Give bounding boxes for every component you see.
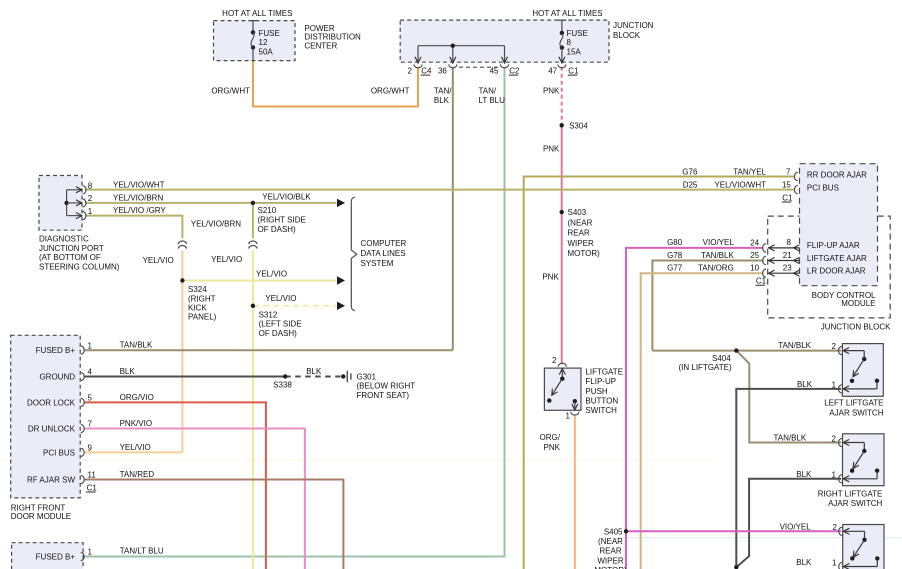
svg-text:ORG/WHT: ORG/WHT — [211, 87, 250, 96]
svg-text:(IN LIFTGATE): (IN LIFTGATE) — [679, 363, 733, 372]
svg-text:REAR: REAR — [568, 229, 590, 238]
svg-text:BLK: BLK — [434, 96, 450, 105]
svg-text:FUSE: FUSE — [567, 29, 588, 38]
svg-text:LT BLU: LT BLU — [479, 96, 506, 105]
svg-text:TAN/: TAN/ — [434, 87, 452, 96]
svg-text:DOOR LOCK: DOOR LOCK — [27, 398, 76, 407]
svg-text:12: 12 — [259, 38, 268, 47]
svg-text:S405: S405 — [604, 527, 623, 536]
svg-text:FRONT SEAT): FRONT SEAT) — [357, 391, 410, 400]
svg-text:WIPER: WIPER — [568, 239, 594, 248]
svg-text:LEFT LIFTGATE: LEFT LIFTGATE — [824, 399, 883, 408]
svg-text:RIGHT LIFTGATE: RIGHT LIFTGATE — [818, 490, 883, 499]
svg-text:S312: S312 — [259, 310, 278, 319]
svg-text:2: 2 — [408, 67, 413, 76]
svg-text:7: 7 — [88, 420, 93, 429]
svg-text:HOT AT ALL TIMES: HOT AT ALL TIMES — [532, 9, 602, 18]
svg-text:YEL/VIO: YEL/VIO — [143, 256, 174, 265]
svg-text:11: 11 — [88, 471, 97, 480]
svg-text:(NEAR: (NEAR — [568, 218, 593, 227]
svg-text:PCI BUS: PCI BUS — [807, 184, 839, 193]
svg-text:AJAR SWITCH: AJAR SWITCH — [829, 408, 883, 417]
svg-text:FUSED B+: FUSED B+ — [36, 346, 76, 355]
svg-text:4: 4 — [88, 368, 93, 377]
svg-text:1: 1 — [566, 412, 571, 421]
svg-text:C2: C2 — [509, 67, 520, 76]
svg-text:REAR: REAR — [599, 547, 621, 556]
svg-text:YEL/VIO/BLK: YEL/VIO/BLK — [262, 193, 311, 202]
svg-text:BLK: BLK — [796, 558, 812, 567]
svg-text:50A: 50A — [259, 48, 274, 57]
svg-text:TAN/BLK: TAN/BLK — [701, 251, 734, 260]
svg-text:24: 24 — [750, 238, 759, 247]
svg-text:AJAR SWITCH: AJAR SWITCH — [828, 499, 882, 508]
svg-text:JUNCTION PORT: JUNCTION PORT — [39, 244, 104, 253]
svg-text:25: 25 — [750, 251, 759, 260]
svg-text:HOT AT ALL TIMES: HOT AT ALL TIMES — [222, 9, 292, 18]
svg-text:45: 45 — [490, 67, 499, 76]
svg-text:G77: G77 — [667, 264, 683, 273]
svg-text:21: 21 — [783, 251, 792, 260]
svg-text:BLK: BLK — [796, 470, 812, 479]
svg-text:ORG/WHT: ORG/WHT — [371, 87, 410, 96]
svg-text:S304: S304 — [569, 121, 588, 130]
svg-text:(NEAR: (NEAR — [598, 537, 623, 546]
svg-text:DISTRIBUTION: DISTRIBUTION — [304, 33, 361, 42]
svg-text:SYSTEM: SYSTEM — [361, 259, 394, 268]
svg-text:CENTER: CENTER — [304, 41, 337, 50]
svg-text:STEERING COLUMN): STEERING COLUMN) — [39, 262, 120, 271]
svg-text:VIO/YEL: VIO/YEL — [780, 523, 812, 532]
svg-text:PNK/VIO: PNK/VIO — [120, 419, 152, 428]
svg-text:G80: G80 — [667, 238, 683, 247]
svg-text:36: 36 — [438, 67, 447, 76]
svg-text:BUTTON: BUTTON — [585, 396, 618, 405]
svg-text:(AT BOTTOM OF: (AT BOTTOM OF — [39, 253, 101, 262]
svg-text:COMPUTER: COMPUTER — [361, 239, 407, 248]
svg-text:SWITCH: SWITCH — [585, 406, 617, 415]
svg-text:15: 15 — [782, 180, 791, 189]
svg-text:ORG/: ORG/ — [540, 433, 561, 442]
svg-text:1: 1 — [832, 471, 837, 480]
svg-text:7: 7 — [786, 167, 791, 176]
svg-text:D25: D25 — [683, 180, 698, 189]
svg-text:8: 8 — [88, 181, 93, 190]
svg-text:MODULE: MODULE — [841, 299, 875, 308]
svg-text:1: 1 — [88, 341, 93, 350]
svg-text:BLK: BLK — [120, 367, 136, 376]
svg-text:RR DOOR AJAR: RR DOOR AJAR — [807, 170, 867, 179]
svg-text:TAN/BLK: TAN/BLK — [120, 341, 153, 350]
svg-text:TAN/BLK: TAN/BLK — [773, 433, 806, 442]
svg-text:OF DASH): OF DASH) — [258, 225, 297, 234]
svg-text:JUNCTION: JUNCTION — [613, 21, 654, 30]
svg-text:TAN/YEL: TAN/YEL — [733, 167, 766, 176]
svg-text:LIFTGATE AJAR: LIFTGATE AJAR — [807, 254, 867, 263]
svg-text:RF AJAR SW: RF AJAR SW — [27, 476, 75, 485]
svg-text:FLIP-UP AJAR: FLIP-UP AJAR — [807, 241, 860, 250]
svg-text:(LEFT SIDE: (LEFT SIDE — [259, 320, 302, 329]
svg-text:PANEL): PANEL) — [188, 313, 217, 322]
svg-text:JUNCTION BLOCK: JUNCTION BLOCK — [821, 322, 891, 331]
svg-text:YEL/VIO: YEL/VIO — [265, 294, 296, 303]
svg-text:(BELOW RIGHT: (BELOW RIGHT — [357, 382, 416, 391]
svg-text:ORG/VIO: ORG/VIO — [120, 393, 154, 402]
svg-text:BLK: BLK — [797, 380, 813, 389]
svg-text:KICK: KICK — [188, 304, 207, 313]
svg-text:POWER: POWER — [304, 24, 334, 33]
svg-text:G78: G78 — [667, 251, 683, 260]
svg-text:2: 2 — [552, 356, 557, 365]
svg-text:2: 2 — [832, 342, 837, 351]
svg-text:C4: C4 — [421, 67, 432, 76]
svg-text:BLK: BLK — [306, 367, 322, 376]
svg-text:DATA LINES: DATA LINES — [361, 249, 406, 258]
svg-text:1: 1 — [88, 207, 93, 216]
svg-text:8: 8 — [567, 38, 572, 47]
svg-text:VIO/YEL: VIO/YEL — [703, 238, 735, 247]
svg-text:TAN/LT BLU: TAN/LT BLU — [120, 547, 164, 556]
svg-text:2: 2 — [832, 434, 837, 443]
svg-text:FUSED B+: FUSED B+ — [36, 553, 76, 562]
svg-text:PUSH: PUSH — [585, 387, 607, 396]
svg-text:TAN/BLK: TAN/BLK — [778, 341, 811, 350]
svg-text:TAN/ORG: TAN/ORG — [698, 264, 734, 273]
svg-text:S403: S403 — [568, 208, 587, 217]
svg-text:LR DOOR AJAR: LR DOOR AJAR — [807, 267, 866, 276]
svg-text:YEL/VIO: YEL/VIO — [120, 443, 151, 452]
svg-text:TAN/RED: TAN/RED — [120, 470, 155, 479]
svg-text:MOTOR): MOTOR) — [568, 249, 601, 258]
svg-text:DR UNLOCK: DR UNLOCK — [28, 425, 76, 434]
svg-text:YEL/VIO/WHT: YEL/VIO/WHT — [714, 180, 766, 189]
svg-text:S404: S404 — [712, 354, 731, 363]
svg-text:PCI BUS: PCI BUS — [43, 448, 75, 457]
svg-text:1: 1 — [88, 548, 93, 557]
svg-text:WIPER: WIPER — [597, 556, 623, 565]
svg-text:FLIP-UP: FLIP-UP — [585, 377, 616, 386]
svg-text:TAN/: TAN/ — [479, 87, 497, 96]
svg-text:PNK: PNK — [544, 443, 561, 452]
svg-text:GROUND: GROUND — [39, 373, 75, 382]
svg-text:C1: C1 — [782, 193, 793, 202]
svg-text:YEL/VIO: YEL/VIO — [256, 270, 287, 279]
svg-text:YEL/VIO/BRN: YEL/VIO/BRN — [191, 219, 241, 228]
svg-text:PNK: PNK — [543, 87, 560, 96]
svg-text:C1: C1 — [756, 277, 767, 286]
svg-text:15A: 15A — [567, 48, 582, 57]
svg-text:LIFTGATE: LIFTGATE — [585, 368, 623, 377]
svg-text:10: 10 — [750, 264, 759, 273]
svg-text:BLOCK: BLOCK — [613, 31, 641, 40]
svg-text:9: 9 — [88, 444, 93, 453]
svg-text:S324: S324 — [188, 285, 207, 294]
svg-text:RIGHT FRONT: RIGHT FRONT — [11, 503, 66, 512]
svg-text:2: 2 — [833, 523, 838, 532]
svg-text:OF DASH): OF DASH) — [259, 329, 298, 338]
svg-text:YEL/VIO/BRN: YEL/VIO/BRN — [113, 193, 163, 202]
svg-text:2: 2 — [88, 194, 93, 203]
svg-text:FUSE: FUSE — [259, 29, 280, 38]
svg-text:8: 8 — [787, 238, 792, 247]
svg-text:DOOR MODULE: DOOR MODULE — [11, 512, 71, 521]
svg-text:DIAGNOSTIC: DIAGNOSTIC — [39, 235, 89, 244]
svg-text:(RIGHT SIDE: (RIGHT SIDE — [258, 215, 306, 224]
svg-text:C1: C1 — [568, 67, 579, 76]
svg-text:G301: G301 — [357, 373, 377, 382]
svg-text:1: 1 — [832, 558, 837, 567]
svg-text:C1: C1 — [87, 483, 98, 492]
svg-text:5: 5 — [88, 394, 93, 403]
svg-text:YEL/VIO /GRY: YEL/VIO /GRY — [113, 206, 166, 215]
svg-text:23: 23 — [783, 264, 792, 273]
svg-text:S210: S210 — [258, 206, 277, 215]
svg-text:47: 47 — [548, 67, 557, 76]
svg-text:G76: G76 — [682, 167, 698, 176]
svg-text:YEL/VIO/WHT: YEL/VIO/WHT — [113, 180, 165, 189]
svg-text:PNK: PNK — [542, 273, 559, 282]
svg-text:PNK: PNK — [543, 145, 560, 154]
svg-text:(RIGHT: (RIGHT — [188, 294, 216, 303]
svg-text:S338: S338 — [273, 381, 292, 390]
svg-text:YEL/VIO: YEL/VIO — [211, 255, 242, 264]
svg-text:1: 1 — [832, 381, 837, 390]
